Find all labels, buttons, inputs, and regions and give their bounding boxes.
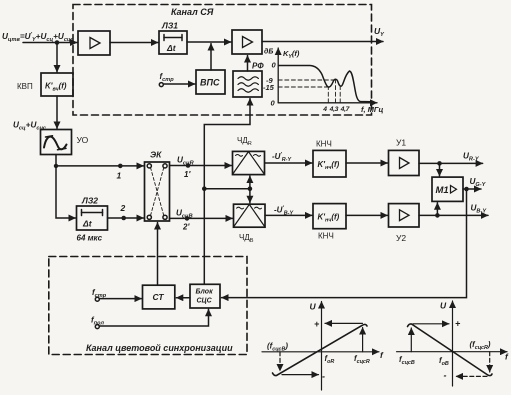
left graph: labels bbox=[267, 302, 384, 382]
wire: КВП to УО bbox=[56, 96, 58, 129]
svg-text:Δt: Δt bbox=[82, 219, 93, 229]
block СТ (trigger) bbox=[143, 285, 175, 309]
svg-text:UG-Y: UG-Y bbox=[470, 177, 487, 188]
left graph: horizontal axis f bbox=[262, 351, 379, 353]
graph K_Y(f): response curve bbox=[279, 66, 372, 102]
svg-text:-U′R-Y: -U′R-Y bbox=[272, 152, 291, 163]
delay line ЛЗ2 (64 мкс) bbox=[77, 206, 108, 230]
svg-text:fстр: fстр bbox=[92, 288, 107, 299]
amplifier A2 (output amp) bbox=[232, 30, 262, 54]
svg-text:fсцсB: fсцсB bbox=[399, 355, 415, 366]
wire: ЧД_B to КНЧ2, label -U'B-Y bbox=[265, 214, 312, 216]
label канал цветовой синхронизации bbox=[86, 343, 233, 353]
graph K_Y(f): tick labels 4 4,3 4,7 and f,МГц bbox=[322, 105, 383, 114]
svg-text:4,3: 4,3 bbox=[329, 106, 339, 113]
frequency detector ЧД_R bbox=[233, 151, 265, 174]
svg-text:0: 0 bbox=[272, 61, 277, 70]
right graph: falling S-curve bbox=[408, 324, 493, 376]
block ВПС (gating pulse former) bbox=[196, 70, 225, 94]
label КВП bbox=[17, 82, 33, 91]
wire: ЛЗ1 to amplifier A2 bbox=[187, 41, 231, 43]
label ЛЗ1 bbox=[161, 21, 178, 54]
svg-text:U: U bbox=[440, 301, 447, 311]
wire: down to ЛЗ2 bbox=[56, 166, 76, 218]
node: junction between detectors bbox=[248, 186, 253, 191]
terminal f_пол bbox=[95, 325, 99, 329]
node: input junction dot bbox=[55, 40, 60, 45]
node 2 (dot and label) bbox=[121, 216, 126, 221]
left graph: plus-level arrow to axis bbox=[325, 322, 363, 324]
svg-text:UY: UY bbox=[374, 26, 385, 38]
wire: node down to КВП bbox=[56, 43, 58, 73]
wire: ЭК output 1' to ЧД_R bbox=[170, 165, 232, 167]
svg-text:ЛЗ2: ЛЗ2 bbox=[81, 196, 98, 206]
label U_R-Y bbox=[463, 152, 480, 163]
wire: A2 output U_Y bbox=[262, 41, 383, 43]
label РФ bbox=[252, 62, 264, 71]
svg-text:1: 1 bbox=[117, 171, 122, 181]
wire: branch to detectors bbox=[204, 188, 250, 190]
dashed box: канал СЯ (luminance channel) bbox=[73, 5, 372, 116]
svg-text:f, МГц: f, МГц bbox=[361, 105, 384, 114]
label U_Y bbox=[374, 26, 385, 38]
label ЧД_B bbox=[239, 233, 254, 244]
label U_B-Y bbox=[471, 204, 488, 215]
right graph: plus-level arrow to axis bbox=[413, 323, 449, 325]
wire: down into ЧД_B bbox=[249, 189, 251, 203]
node: У2 output junction bbox=[435, 213, 440, 218]
svg-text:+: + bbox=[314, 319, 320, 329]
node: label Uсц+Uсцс bbox=[13, 121, 47, 132]
svg-text:U: U bbox=[310, 302, 317, 312]
right graph: horizontal axis f bbox=[397, 351, 507, 353]
graph right: discriminator characteristic B bbox=[397, 301, 507, 386]
node 1' (dot and labels Uсцr) bbox=[186, 163, 191, 168]
graph K_Y(f): dashed levels bbox=[278, 80, 340, 103]
svg-text:UR-Y: UR-Y bbox=[463, 152, 480, 163]
svg-text:Канал цветовой синхронизации: Канал цветовой синхронизации bbox=[86, 343, 233, 353]
svg-text:+: + bbox=[455, 319, 461, 329]
svg-text:ЭК: ЭК bbox=[150, 150, 162, 160]
svg-text:fоR: fоR bbox=[325, 354, 335, 365]
dashed box: канал цветовой синхронизации bbox=[49, 257, 247, 355]
svg-text:2′: 2′ bbox=[182, 223, 190, 232]
label УО bbox=[77, 135, 89, 145]
label ЧД_R bbox=[237, 136, 252, 147]
svg-text:(fсцсR): (fсцсR) bbox=[470, 340, 491, 351]
node: М1 output junction bbox=[464, 187, 469, 192]
left graph: rising S-curve bbox=[273, 324, 368, 375]
wire: feedback from U_G-Y node down to Блок СЦС bbox=[222, 189, 467, 298]
svg-text:ЛЗ1: ЛЗ1 bbox=[161, 21, 178, 31]
left graph: vertical arrow up at f_сцсR bbox=[362, 328, 364, 352]
frequency detector ЧД_B bbox=[234, 204, 266, 227]
wire: f_стр to ВПС bbox=[164, 83, 195, 85]
svg-text:КНЧ: КНЧ bbox=[316, 140, 332, 149]
low-pass block КНЧ2 Kнч(f) bbox=[313, 204, 346, 229]
svg-text:f: f bbox=[380, 350, 384, 360]
svg-text:4,7: 4,7 bbox=[340, 106, 351, 113]
wire: ЭК up to СТ (switching control) bbox=[157, 223, 159, 286]
svg-text:1′: 1′ bbox=[184, 170, 191, 179]
band-stop filter РФ bbox=[233, 71, 262, 97]
svg-text:f: f bbox=[505, 352, 509, 362]
svg-text:У2: У2 bbox=[396, 233, 406, 243]
low-pass block КНЧ1 K'нч(f) bbox=[313, 150, 346, 177]
svg-text:СЦС: СЦС bbox=[197, 298, 213, 305]
amplifier У2 bbox=[389, 204, 420, 227]
block КВП K'вч(f) pre-correction bbox=[41, 73, 73, 96]
svg-text:4: 4 bbox=[322, 106, 327, 113]
wire: КНЧ2 to У2 bbox=[346, 214, 388, 216]
svg-text:М1: М1 bbox=[436, 185, 449, 196]
wire: М1 output U_G-Y bbox=[463, 188, 481, 190]
svg-text:fпол: fпол bbox=[91, 316, 105, 327]
svg-text:Δt: Δt bbox=[166, 43, 177, 53]
svg-text:2: 2 bbox=[120, 203, 126, 213]
svg-text:-: - bbox=[322, 372, 325, 382]
label КНЧ (bottom) bbox=[318, 232, 334, 241]
wire: Блок СЦС to СТ bbox=[176, 297, 190, 299]
wire: УО down and right to ЭК input 1 bbox=[56, 155, 144, 166]
svg-text:fстр: fстр bbox=[160, 72, 175, 83]
svg-text:K′нч(f): K′нч(f) bbox=[318, 213, 340, 224]
delay line ЛЗ1 bbox=[159, 31, 187, 54]
wire: У2 output U_B-Y bbox=[419, 214, 488, 216]
node: У1 output junction bbox=[437, 161, 442, 166]
label ЛЗ2 and 64 мкс bbox=[77, 196, 103, 243]
label У1 bbox=[396, 138, 406, 148]
svg-text:Uцтв=U′Y+Uсц+Uсцс: Uцтв=U′Y+Uсц+Uсцс bbox=[2, 32, 74, 43]
svg-text:РФ: РФ bbox=[252, 62, 264, 71]
matrix М1 bbox=[432, 177, 463, 201]
label канал СЯ bbox=[171, 7, 214, 17]
right graph: labels bbox=[399, 301, 509, 381]
wire: КНЧ1 to У1 bbox=[346, 162, 388, 164]
block Блок СЦС (colour sync block) bbox=[190, 284, 220, 308]
wire: ЛЗ2 to ЭК input 2 bbox=[108, 217, 144, 219]
wire: РФ up to A2 bbox=[247, 56, 249, 72]
svg-text:дБ: дБ bbox=[264, 48, 273, 56]
svg-text:У1: У1 bbox=[396, 138, 406, 148]
left graph: minus-level arrow to axis bbox=[282, 374, 319, 376]
wire: junction down into М1 bbox=[439, 163, 441, 176]
wire: A1 to ЛЗ1 bbox=[110, 42, 158, 44]
svg-text:fсцсR: fсцсR bbox=[354, 354, 370, 365]
wire: У1 output U_R-Y bbox=[419, 162, 483, 164]
svg-text:UB-Y: UB-Y bbox=[471, 204, 488, 215]
label У2 bbox=[396, 233, 406, 243]
svg-text:Блок: Блок bbox=[196, 289, 214, 296]
wire: ВПС up to luminance wire bbox=[210, 44, 212, 71]
svg-text:64 мкс: 64 мкс bbox=[77, 234, 103, 243]
wire: ЭК output 2' to ЧД_B bbox=[170, 217, 233, 219]
wire: reference line from СЦС up to РФ bbox=[204, 99, 250, 285]
label ЭК bbox=[150, 150, 162, 160]
terminal f_стр (bottom) bbox=[95, 297, 99, 301]
svg-text:KY(f): KY(f) bbox=[283, 49, 300, 60]
right graph: vertical arrow up at f_сцсB bbox=[410, 328, 412, 352]
node junction at УО output bbox=[54, 164, 58, 168]
wire: f_пол to Блок СЦС bbox=[100, 309, 209, 326]
svg-text:-: - bbox=[444, 371, 447, 381]
left graph: dashed arrow down at (f_сцсB) bbox=[279, 352, 281, 371]
right graph: dashed minus-level arrow to axis bbox=[456, 375, 487, 377]
svg-text:-15: -15 bbox=[263, 83, 275, 92]
block УО (amplitude limiter) bbox=[41, 130, 72, 155]
svg-text:УО: УО bbox=[77, 135, 89, 145]
right graph: vertical axis U bbox=[452, 301, 454, 386]
wire: junction up into М1 bbox=[436, 203, 438, 216]
electronic commutator ЭК bbox=[145, 162, 170, 221]
wire: up into ЧД_R bbox=[249, 176, 251, 189]
svg-text:СТ: СТ bbox=[153, 292, 165, 302]
node: reference branch junction on СЦС line bbox=[202, 186, 207, 191]
right graph: dashed arrow down at (f_сцсR) bbox=[489, 352, 491, 372]
svg-text:ЧДB: ЧДB bbox=[239, 233, 254, 244]
svg-text:КВП: КВП bbox=[17, 82, 33, 91]
wire: f_стр to СТ bbox=[100, 298, 142, 300]
svg-text:ЧДR: ЧДR bbox=[237, 136, 252, 147]
label U_G-Y bbox=[470, 177, 487, 188]
svg-text:K′вч(f): K′вч(f) bbox=[45, 82, 67, 93]
graph K_Y(f): frequency response axes bbox=[278, 48, 377, 103]
wire: input to amplifier A1 bbox=[23, 42, 77, 44]
node: input Uцтв label bbox=[2, 32, 74, 43]
svg-text:КНЧ: КНЧ bbox=[318, 232, 334, 241]
graph K_Y(f): axis labels bbox=[263, 48, 300, 108]
svg-text:ВПС: ВПС bbox=[200, 78, 220, 88]
wire: ЧД_R to КНЧ1, label -U'R-Y bbox=[265, 162, 312, 164]
svg-text:fоB: fоB bbox=[439, 356, 449, 367]
svg-text:K′нч(f): K′нч(f) bbox=[318, 160, 340, 171]
svg-text:0: 0 bbox=[271, 99, 276, 108]
graph left: discriminator characteristic R bbox=[262, 302, 379, 391]
terminal f_стр (line frequency input, top) bbox=[159, 83, 163, 87]
svg-text:(fсцсB): (fсцсB) bbox=[267, 342, 288, 353]
left graph: vertical axis U bbox=[321, 302, 323, 391]
node 1 (dot and label) bbox=[118, 164, 123, 169]
node 2' (dot and label Uсцb) bbox=[185, 216, 190, 221]
svg-text:Канал СЯ: Канал СЯ bbox=[171, 7, 214, 17]
amplifier У1 bbox=[389, 150, 420, 175]
label КНЧ (top) bbox=[316, 140, 332, 149]
amplifier A1 (video amp) bbox=[78, 31, 110, 55]
